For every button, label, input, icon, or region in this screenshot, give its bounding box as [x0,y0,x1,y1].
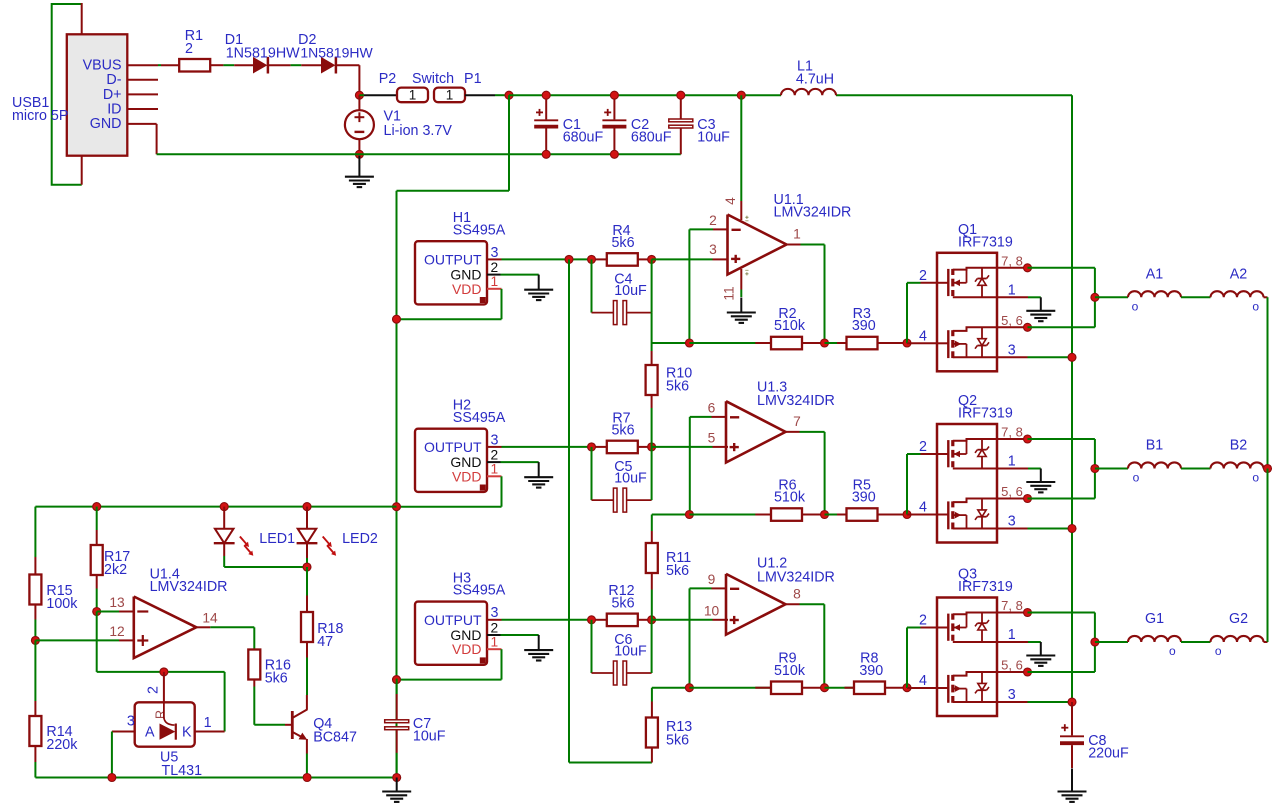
diode D2 [321,57,335,74]
svg-text:1: 1 [204,715,212,731]
svg-text:o: o [1252,471,1259,485]
wire left VDD row [35,506,396,508]
svg-text:5k6: 5k6 [611,596,634,612]
svg-text:o: o [1132,299,1139,313]
Q3 N-FET [947,675,949,703]
wire P1 to rail [465,94,495,96]
node C1 top [542,91,550,99]
svg-text:1: 1 [1008,282,1016,298]
svg-text:3: 3 [127,714,135,730]
svg-text:BC847: BC847 [313,730,357,746]
inductor G2 [1211,636,1264,642]
node R7 right [648,443,656,451]
svg-text:o: o [1169,644,1176,658]
node fb left y=687.7 [685,684,693,692]
svg-text:P1: P1 [464,71,482,87]
U1.2 output pin 8 [786,603,800,605]
resistor R15 100k [34,557,36,575]
svg-text:3: 3 [709,242,717,257]
svg-text:1N5819HW: 1N5819HW [226,45,300,61]
svg-text:2: 2 [146,686,162,694]
op-amp U1.1 LMV324IDR [728,215,787,275]
svg-text:680uF: 680uF [563,130,604,146]
node C2 bottom [610,150,618,158]
node left row R17 [93,503,101,511]
wire LED1 cathode [223,556,225,567]
svg-text:B1: B1 [1146,438,1164,454]
node Q1 pin 3 to rail [1068,353,1076,361]
svg-text:1: 1 [409,88,417,103]
svg-text:K: K [182,724,192,740]
node Q3 phase tap [1091,638,1099,646]
node H3 VDD [393,676,401,684]
wire R17 node down to U5 ref row [96,612,98,672]
svg-text:510k: 510k [774,490,806,506]
resistor R2 [755,342,771,344]
node R4 left [588,255,596,263]
ground C8 [1071,769,1073,792]
svg-text:VDD: VDD [452,468,482,484]
svg-text:TL431: TL431 [162,763,203,779]
node fb right y=343 [903,339,911,347]
resistor R18 47 [306,567,308,596]
wire phase G hall output row [502,619,592,621]
svg-text:510k: 510k [774,318,806,334]
resistor R9 [755,687,771,689]
LED2 [306,507,308,529]
svg-text:10uF: 10uF [413,729,446,745]
svg-text:12: 12 [109,624,124,639]
resistor R11 5k6 [651,515,653,532]
node opamp supply tap [737,91,745,99]
node left row LED2 [303,503,311,511]
svg-text:2k2: 2k2 [104,562,127,578]
svg-text:A1: A1 [1146,266,1164,282]
svg-text:13: 13 [109,595,125,610]
wire H1 output down to R13 bottom [568,259,570,762]
wire right phase rail [1071,95,1073,702]
resistor R8 [845,687,855,689]
ground H3 [538,635,540,650]
svg-text:4: 4 [919,500,927,516]
svg-text:OUTPUT: OUTPUT [424,612,482,628]
wire battery to P2 [359,94,364,96]
wire VDD feed [508,95,510,191]
wire phase B hall output row [502,446,592,448]
node Q3 pin 5,6 [1024,668,1032,676]
wire H2 VDD to rail [501,476,503,506]
transistor Q1 IRF7319 [937,253,997,371]
wire D1 to D2 [268,64,291,66]
wire VDD rail [396,191,398,778]
ground U1.1 [740,298,742,313]
svg-text:LED1: LED1 [259,531,295,547]
svg-text:5: 5 [708,430,716,445]
node battery bottom [355,150,363,158]
capacitor C1 [545,95,547,119]
svg-text:10uF: 10uF [614,643,647,659]
node H2 VDD [393,503,401,511]
LED1 [223,507,225,529]
svg-text:47: 47 [317,634,333,650]
inductor A2 [1211,291,1264,297]
svg-text:LMV324IDR: LMV324IDR [757,393,835,409]
node C7 ground [393,774,401,782]
svg-text:1: 1 [1008,454,1016,470]
inductor A1 [1128,291,1181,297]
node R12 right [648,616,656,624]
svg-text:5k6: 5k6 [611,235,634,251]
svg-text:3: 3 [1008,687,1016,703]
svg-text:o: o [1252,299,1259,313]
USB1 pin D+ [127,93,158,95]
svg-text:8: 8 [793,586,801,601]
node U5 anode to rail [108,774,116,782]
node C2 top [610,91,618,99]
node Q2 pin 3 to rail [1068,525,1076,533]
svg-text:5k6: 5k6 [611,423,634,439]
resistor R12 5k6 [607,614,638,627]
svg-text:LED2: LED2 [342,531,378,547]
svg-text:9: 9 [708,572,716,587]
hall sensor H1 SS495A [415,241,487,304]
inductor G1 [1128,636,1181,642]
svg-text:14: 14 [202,610,218,625]
wire R4 to opamp [652,258,713,260]
resistor R10 5k6 [651,343,653,352]
wire R16 to Q4 base [253,687,255,725]
wire U1.1 output [801,244,825,246]
wire feedback row y=343 [652,342,690,344]
svg-text:VDD: VDD [452,281,482,297]
svg-text:3: 3 [1008,342,1016,358]
USB1 pin D- [127,79,158,81]
ground Q1 pin 1 [1040,297,1042,311]
transistor Q2 IRF7319 [937,424,997,543]
wire C4 right to feedback row A [651,313,653,343]
node R17 pin13 [93,608,101,616]
node P1 output [505,91,513,99]
node LED cathodes [306,558,308,567]
svg-text:Switch: Switch [412,71,454,87]
node battery top [355,91,363,99]
ground Q3 pin 1 [1040,642,1042,656]
svg-text:D-: D- [106,72,121,88]
wire H1 VDD to rail [501,289,503,319]
wire feedback row y=687.7 [652,687,690,689]
svg-text:11: 11 [722,286,737,300]
svg-text:OUTPUT: OUTPUT [424,251,482,267]
svg-text:2: 2 [491,620,499,635]
node fb right y=687.7 [903,684,911,692]
wire U1.2 inverting input [690,587,712,589]
inductor B2 [1211,462,1264,468]
wire Q2 phase loop [1028,438,1095,440]
svg-text:5k6: 5k6 [666,733,689,749]
svg-text:2: 2 [185,41,193,57]
wire H3 VDD to rail [501,649,503,679]
svg-text:IRF7319: IRF7319 [958,579,1013,595]
svg-text:G2: G2 [1229,611,1248,627]
svg-text:2: 2 [919,613,927,629]
svg-text:SS495A: SS495A [453,583,506,599]
wire R1 to D1 [210,64,223,66]
svg-text:5, 6: 5, 6 [1001,658,1023,673]
svg-text:G1: G1 [1145,611,1164,627]
ground main [396,778,398,792]
node R7 left [588,443,596,451]
wire D2 to battery node [336,64,360,66]
node Q3 pin 3 to rail [1068,698,1076,706]
svg-text:390: 390 [852,318,876,334]
ground H1 [538,275,540,290]
svg-text:4: 4 [919,673,927,689]
svg-text:A: A [145,724,155,740]
svg-text:1: 1 [491,462,499,477]
wire phase series link [1267,297,1269,468]
resistor R1 [179,59,210,72]
op-amp U1.4 LMV324IDR [134,597,197,659]
node H1 output tap [565,255,573,263]
svg-text:10uF: 10uF [614,470,647,486]
svg-text:4: 4 [919,328,927,344]
USB1 pin GND [127,123,156,125]
svg-text:2: 2 [491,448,499,463]
capacitor C6 10uF [591,620,593,673]
svg-text:LMV324IDR: LMV324IDR [150,579,228,595]
capacitor C7 10uF [396,679,398,694]
svg-text:D+: D+ [103,87,122,103]
wire G1 to G2 [1181,641,1211,643]
USB1 pin ID [127,108,158,110]
inductor L1 [781,89,836,95]
svg-text:7, 8: 7, 8 [1001,253,1023,268]
ground H2 [538,462,540,477]
resistor R4 5k6 [607,253,638,266]
svg-text:10: 10 [704,603,720,618]
voltage source V1 [358,95,360,110]
wire U1.1 inverting input [689,228,713,230]
capacitor C3 [680,95,682,119]
ground V1 [358,156,360,177]
header P1 [434,88,465,103]
svg-text:4.7uH: 4.7uH [796,72,834,88]
resistor R6 [755,514,771,516]
svg-text:2: 2 [919,439,927,455]
capacitor C5 10uF [591,447,593,500]
svg-text:220k: 220k [46,737,78,753]
wire Q3 phase loop [1028,612,1095,614]
node H1 VDD [393,315,401,323]
Q1 N-FET [947,330,949,358]
svg-text:7, 8: 7, 8 [1001,598,1023,613]
svg-text:o: o [1215,644,1222,658]
node fb mid y=687.7 [821,684,829,692]
capacitor C2 [613,95,615,119]
capacitor C8 220uF [1071,702,1073,735]
node Q3 pin 7,8 [1024,609,1032,617]
node fb left y=343 [685,339,693,347]
shunt regulator U5 TL431 [163,672,165,702]
hall sensor H2 SS495A [415,429,487,492]
svg-text:100k: 100k [46,596,78,612]
svg-text:IRF7319: IRF7319 [958,234,1013,250]
U1.1 power pin 4 [740,95,742,201]
Q1 P-FET [947,269,949,296]
svg-text:7: 7 [793,414,801,429]
Q3 P-FET [947,614,949,641]
node left row LED1 [220,503,228,511]
wire left rail down [34,507,36,557]
svg-text:1: 1 [1008,627,1016,643]
svg-text:1: 1 [793,227,801,242]
svg-text:5, 6: 5, 6 [1001,313,1023,328]
resistor R13 5k6 [651,688,653,702]
USB1 pin VBUS [127,64,158,66]
svg-text:B2: B2 [1230,438,1248,454]
resistor R14 220k [34,640,36,701]
wire feedback row y=514.5 [652,514,690,516]
svg-text:SS495A: SS495A [453,410,506,426]
svg-text:Li-ion 3.7V: Li-ion 3.7V [384,123,453,139]
svg-text:510k: 510k [774,663,806,679]
svg-text:OUTPUT: OUTPUT [424,439,482,455]
LED1 arrows [240,537,247,545]
svg-text:7, 8: 7, 8 [1001,425,1023,440]
svg-text:1N5819HW: 1N5819HW [300,44,373,60]
svg-text:LMV324IDR: LMV324IDR [774,204,852,220]
svg-text:2: 2 [709,213,717,228]
node Q2 pin 7,8 [1024,435,1032,443]
svg-text:P2: P2 [379,71,397,87]
op-amp U1.2 LMV324IDR [726,574,786,635]
svg-text:VDD: VDD [452,641,482,657]
capacitor C4 10uF [591,259,593,312]
transistor Q4 BC847 [306,695,308,710]
node U5 ref [160,668,168,676]
resistor R17 2k2 [96,507,98,530]
svg-text:5k6: 5k6 [265,671,288,687]
node C3 top [677,91,685,99]
svg-text:ID: ID [107,101,121,117]
svg-text:5k6: 5k6 [666,563,689,579]
wire A1 to A2 [1181,296,1211,298]
node Q2 phase tap [1091,465,1099,473]
wire bottom ground rail [35,777,396,779]
wire R7 to opamp [652,446,713,448]
svg-text:GND: GND [90,116,122,132]
hall sensor H3 SS495A [415,602,487,665]
resistor R3 [837,342,847,344]
svg-text:o: o [1133,471,1140,485]
svg-text:SS495A: SS495A [453,222,506,238]
node B2 right [1264,465,1272,473]
diode D1 [253,57,267,74]
op-amp U1.3 LMV324IDR [726,401,786,462]
node Q4 emitter [303,774,311,782]
svg-text:5, 6: 5, 6 [1001,484,1023,499]
USB1 connector shell [52,4,82,185]
wire B1 to B2 [1181,468,1211,470]
LED2 arrows [323,537,330,545]
svg-text:10uF: 10uF [614,283,647,299]
resistor R5 [837,514,847,516]
svg-text:5k6: 5k6 [666,379,689,395]
node C1 bottom [542,150,550,158]
node R4 right [648,255,656,263]
svg-text:220uF: 220uF [1088,746,1129,762]
header P2 [397,88,428,103]
wire R12 to opamp [652,619,713,621]
svg-text:1: 1 [446,88,454,103]
svg-text:6: 6 [708,400,716,415]
node fb left y=514.5 [685,511,693,519]
wire U1.3 output [800,431,825,433]
node Q1 pin 5,6 [1024,323,1032,331]
wire VBUS to R1 [158,64,161,66]
node R15 R14 divider [31,636,39,644]
svg-text:2: 2 [919,268,927,284]
node fb right y=514.5 [903,511,911,519]
svg-text:micro 5P: micro 5P [12,108,68,124]
inductor B1 [1128,462,1181,468]
svg-text:1: 1 [491,274,499,289]
node Q1 phase tap [1091,293,1099,301]
U1.1 power pin 11 [740,269,742,290]
node fb mid y=514.5 [821,511,829,519]
U1.3 output pin 7 [786,431,800,433]
USB1 micro 5P body [67,34,128,155]
U1.1 output pin 1 [787,244,801,246]
resistor R7 5k6 [607,441,638,454]
svg-text:680uF: 680uF [631,130,672,146]
svg-text:1: 1 [491,635,499,650]
Q2 N-FET [947,501,949,529]
svg-text:390: 390 [859,663,883,679]
ground Q2 pin 1 [1040,469,1042,483]
wire U5 feedback loop [224,672,226,732]
svg-text:VBUS: VBUS [83,58,122,74]
node Q2 pin 5,6 [1024,495,1032,503]
svg-text:4: 4 [723,197,738,205]
svg-text:2: 2 [491,260,499,275]
node fb mid y=343 [821,339,829,347]
wire Q1 phase loop [1028,267,1095,269]
wire U1.2 output [800,603,825,605]
svg-text:IRF7319: IRF7319 [958,406,1013,422]
svg-text:10uF: 10uF [697,130,730,146]
wire top supply rail [509,94,781,96]
node Q1 pin 7,8 [1024,264,1032,272]
node R12 left [588,616,596,624]
wire U1.3 inverting input [690,416,712,418]
transistor Q3 IRF7319 [937,598,997,717]
resistor R16 5k6 [253,627,255,649]
svg-text:LMV324IDR: LMV324IDR [757,569,835,585]
Q2 P-FET [947,440,949,467]
svg-text:3: 3 [1008,514,1016,530]
svg-text:390: 390 [852,490,876,506]
wire ground rail [157,153,681,155]
svg-text:A2: A2 [1230,266,1248,282]
svg-text:R: R [154,710,168,719]
wire phase A hall output row [502,258,592,260]
